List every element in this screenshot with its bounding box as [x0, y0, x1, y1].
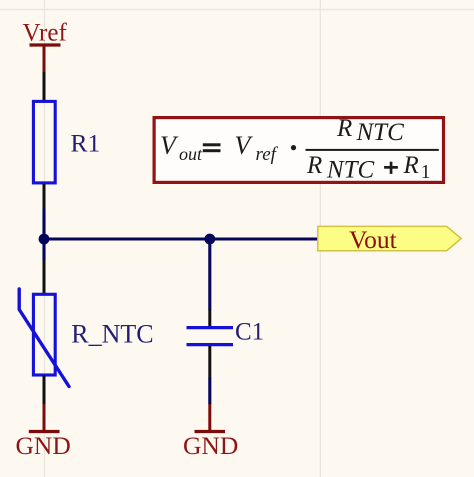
- formula V_out = V_ref * R_NTC/(R_NTC+R1): [160, 115, 439, 184]
- grid axis vertical x=44.5: [44, 0, 46, 477]
- svg-text:C1: C1: [235, 319, 264, 346]
- resistor R1 pin bottom: [43, 184, 46, 210]
- svg-text:R: R: [403, 152, 419, 179]
- svg-text:NTC: NTC: [326, 156, 375, 183]
- svg-text:Vref: Vref: [23, 20, 68, 47]
- thermistor R_NTC body: [33, 294, 55, 375]
- capacitor C1 pin bottom: [208, 346, 211, 378]
- svg-text:R: R: [306, 152, 322, 179]
- resistor R1 pin top: [43, 72, 46, 100]
- resistor R1 body: [33, 101, 55, 182]
- svg-text:GND: GND: [16, 431, 71, 460]
- global label Vout: [318, 225, 461, 254]
- grid axis vertical x=320: [319, 0, 321, 477]
- svg-text:out: out: [179, 144, 203, 164]
- svg-text:R_NTC: R_NTC: [71, 319, 153, 348]
- svg-text:NTC: NTC: [356, 119, 405, 146]
- svg-text:GND: GND: [183, 431, 238, 460]
- svg-text:ref: ref: [256, 144, 279, 165]
- grid axis horizontal y=9.5: [0, 9, 474, 11]
- junction node B: [204, 234, 215, 245]
- capacitor C1 pin top: [208, 309, 211, 326]
- capacitor C1 plate bottom: [187, 343, 234, 346]
- svg-text:R1: R1: [71, 128, 101, 157]
- ground GND right: [183, 404, 238, 460]
- thermistor R_NTC pin bottom: [43, 376, 46, 405]
- wire vertical node B to C1: [208, 239, 211, 310]
- junction node A: [39, 234, 50, 245]
- formula box: [154, 118, 443, 183]
- fraction bar: [306, 149, 439, 151]
- svg-text:1: 1: [421, 162, 431, 183]
- svg-text:Vout: Vout: [349, 225, 397, 254]
- wire horizontal main: [44, 237, 318, 240]
- capacitor C1 plate top: [187, 326, 234, 329]
- thermistor R_NTC diagonal stroke: [19, 289, 69, 387]
- power symbol Vref: [23, 20, 68, 74]
- ground GND left: [16, 404, 71, 460]
- svg-text:R: R: [336, 115, 352, 142]
- thermistor R_NTC pin top: [43, 260, 46, 294]
- wire C1 to GND: [208, 378, 211, 405]
- wire vertical at node A: [42, 209, 45, 261]
